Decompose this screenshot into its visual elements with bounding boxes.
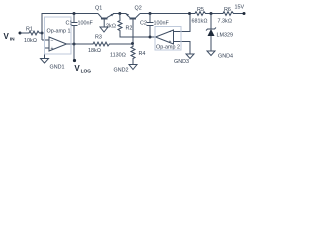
svg-text:R5: R5	[197, 7, 204, 13]
wire Q2 base to divider node	[132, 20, 134, 44]
svg-text:−: −	[169, 30, 172, 36]
op-amp U1 triangle	[49, 37, 67, 51]
svg-text:+: +	[169, 40, 172, 46]
svg-text:IN: IN	[10, 37, 15, 43]
capacitor C1	[73, 14, 75, 23]
wire VIN to R1	[20, 32, 28, 34]
op-amp 1 enclosure box	[45, 17, 72, 54]
svg-text:V: V	[74, 64, 80, 73]
svg-text:18kΩ: 18kΩ	[88, 48, 101, 54]
svg-text:Q2: Q2	[135, 6, 142, 12]
ground GND1	[41, 59, 49, 64]
svg-text:7.3kΩ: 7.3kΩ	[218, 19, 232, 25]
svg-text:GND1: GND1	[50, 65, 65, 71]
wire R3 to divider node	[110, 43, 133, 45]
wire non-inverting input to ground	[45, 48, 50, 59]
ground GND3	[186, 54, 194, 59]
node R5 left junction	[188, 12, 191, 15]
svg-text:C2: C2	[140, 21, 147, 27]
wire R4 to ground	[132, 61, 134, 65]
wire rail Q1 emitter to Q2 emitter	[113, 13, 127, 15]
svg-text:10kΩ: 10kΩ	[24, 38, 37, 44]
wire inverting input op-amp 1	[42, 39, 49, 41]
node VIN terminal	[19, 32, 22, 35]
node summing junction	[41, 32, 44, 35]
op-amp U2 triangle	[156, 30, 174, 44]
svg-text:R4: R4	[139, 51, 146, 57]
wire VLOG drop	[73, 44, 75, 59]
ground GND4	[207, 51, 215, 56]
node divider junction	[131, 42, 134, 45]
svg-text:R2: R2	[126, 26, 133, 32]
svg-text:681kΩ: 681kΩ	[192, 19, 208, 25]
op-amp 2 enclosure box	[155, 27, 181, 51]
svg-text:LM329: LM329	[217, 33, 233, 39]
ground GND2	[129, 65, 137, 70]
node LM329 top junction	[210, 12, 213, 15]
svg-text:GND4: GND4	[218, 54, 233, 60]
capacitor C2	[149, 14, 151, 23]
node C1/output junction	[73, 43, 76, 46]
wire op-amp 2 non-inverting input to ground	[174, 42, 191, 55]
svg-text:100nF: 100nF	[154, 21, 170, 27]
svg-text:15V: 15V	[235, 5, 245, 11]
node C2 bottom junction	[149, 36, 152, 39]
resistor R3 18k	[92, 42, 110, 46]
resistor R1 10k	[28, 31, 40, 35]
svg-text:C1: C1	[66, 21, 73, 27]
node Q2 collector / C2 junction	[149, 12, 152, 15]
svg-text:LOG: LOG	[81, 68, 92, 74]
zener diode LM329	[210, 14, 212, 30]
transistor Q2	[126, 14, 130, 18]
resistor R4 1130	[131, 44, 135, 61]
svg-text:1130Ω: 1130Ω	[110, 53, 126, 59]
svg-text:−: −	[51, 38, 54, 44]
wire riser summing node to top rail	[42, 14, 98, 41]
svg-text:R1: R1	[26, 27, 33, 33]
resistor R5 681k	[194, 12, 206, 16]
wire R6 to 15V terminal	[234, 13, 244, 15]
svg-text:R3: R3	[95, 35, 102, 41]
svg-text:GND3: GND3	[174, 59, 189, 65]
resistor R6 7.3k	[222, 12, 234, 16]
svg-text:100nF: 100nF	[78, 21, 94, 27]
svg-text:+: +	[51, 46, 54, 52]
wire rail Q2 collector to R5	[140, 13, 194, 15]
wire R2 bottom to op-amp 2 output	[120, 31, 156, 37]
node VLOG terminal	[73, 59, 76, 62]
node C1 top junction	[73, 12, 76, 15]
wire Q1 base	[103, 20, 105, 28]
svg-text:Q1: Q1	[95, 6, 102, 12]
wire R5 to LM329 node	[206, 13, 222, 15]
node emitters junction	[118, 12, 121, 15]
svg-text:V: V	[4, 32, 10, 41]
wire op-amp 2 inverting input	[174, 14, 191, 32]
svg-text:Op-amp 1: Op-amp 1	[47, 29, 71, 35]
transistor Q1	[98, 14, 102, 18]
wire op-amp 1 output	[67, 43, 93, 45]
ground Q1 base	[100, 27, 108, 32]
svg-text:GND2: GND2	[114, 68, 129, 74]
svg-text:2kΩ: 2kΩ	[106, 24, 116, 30]
wire R1 to summing node	[40, 32, 42, 34]
resistor R2 2k	[119, 14, 121, 21]
svg-text:R6: R6	[224, 7, 231, 13]
node 15V terminal	[243, 12, 246, 15]
